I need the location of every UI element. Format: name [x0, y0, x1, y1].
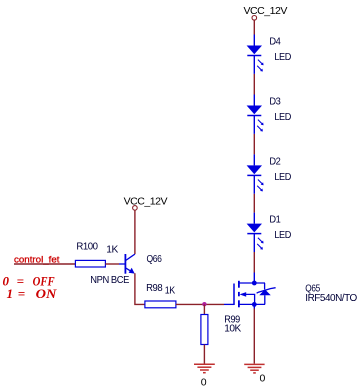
svg-text:LED: LED — [274, 229, 291, 241]
svg-text:VCC_12V: VCC_12V — [244, 5, 288, 17]
wire Q65 source to ground — [253, 309, 255, 364]
wire R99 to ground — [203, 345, 205, 364]
svg-text:10K: 10K — [224, 323, 241, 335]
svg-text:NPN BCE: NPN BCE — [90, 274, 129, 286]
wire node to R99 — [203, 304, 205, 314]
svg-text:LED: LED — [274, 171, 291, 183]
wire D2 to D1 — [253, 194, 255, 213]
svg-text:D4: D4 — [269, 36, 281, 48]
junction (Q65 source node) — [252, 302, 257, 307]
svg-text:R98: R98 — [146, 282, 163, 294]
wire control_fet to R100 — [14, 263, 75, 265]
wire R98 to gate node — [176, 303, 224, 305]
ground 0 (left) — [194, 364, 215, 388]
LED D3 — [247, 95, 292, 134]
resistor R99 — [201, 314, 241, 345]
svg-text:0: 0 — [201, 376, 207, 388]
svg-text:VCC_12V: VCC_12V — [124, 196, 168, 208]
svg-text:D1: D1 — [269, 214, 281, 226]
LED D1 — [247, 213, 292, 252]
svg-text:0: 0 — [260, 373, 266, 385]
power port VCC_12V (top) — [244, 5, 288, 20]
wire R100 to Q66 base — [105, 263, 119, 265]
LED D4 — [247, 35, 292, 74]
wire Q66 emitter to R98 — [135, 273, 145, 304]
ground 0 (right) — [244, 364, 265, 384]
junction (Q65 drain node) — [252, 281, 257, 286]
wire D4 to D3 — [253, 74, 255, 95]
wire VCC to D4 — [253, 20, 255, 34]
svg-text:IRF540N/TO: IRF540N/TO — [305, 292, 357, 304]
svg-text:R100: R100 — [76, 240, 98, 252]
svg-text:LED: LED — [274, 51, 291, 63]
wire VCC to Q66 collector — [134, 210, 136, 254]
svg-text:1K: 1K — [106, 243, 118, 255]
resistor R100 — [75, 240, 118, 267]
LED D2 — [247, 154, 292, 193]
svg-text:D3: D3 — [269, 96, 281, 108]
power port VCC_12V (middle) — [124, 196, 168, 211]
transistor Q66 — [90, 253, 162, 286]
svg-text:D2: D2 — [269, 155, 281, 167]
svg-text:LED: LED — [274, 111, 291, 123]
svg-text:Q66: Q66 — [147, 253, 163, 265]
wire D3 to D2 — [253, 134, 255, 155]
resistor R98 — [145, 282, 176, 308]
mosfet Q65 — [224, 273, 357, 309]
wire D1 to Q65 drain — [253, 252, 255, 273]
junction node — [202, 302, 206, 306]
svg-text:1K: 1K — [165, 284, 175, 296]
